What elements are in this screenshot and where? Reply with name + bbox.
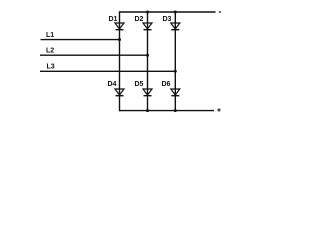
svg-text:D1: D1	[109, 16, 118, 23]
node L1 junction on column 1	[118, 38, 121, 41]
svg-text:D5: D5	[135, 81, 144, 88]
diode D1	[115, 23, 124, 30]
node bottom rail column 3	[174, 109, 177, 112]
diode D5	[143, 89, 152, 96]
svg-text:D4: D4	[108, 81, 117, 88]
wire L3 phase line	[40, 70, 175, 72]
svg-text:D6: D6	[162, 81, 171, 88]
node top rail column 2	[146, 11, 149, 14]
svg-text:L2: L2	[46, 48, 54, 55]
wire column 2 (D2/D5 leg)	[147, 12, 149, 111]
svg-text:D2: D2	[135, 16, 144, 23]
diode D4	[115, 89, 124, 96]
wire negative top rail	[120, 11, 216, 13]
node L2 junction on column 2	[146, 54, 149, 57]
diode D3	[171, 23, 180, 30]
wire column 3 (D3/D6 leg)	[174, 12, 176, 111]
wire L1 phase line	[41, 39, 120, 41]
node bottom rail column 2	[146, 109, 149, 112]
node top rail column 3	[174, 11, 177, 14]
diode D2	[143, 23, 152, 30]
svg-text:L3: L3	[47, 64, 55, 71]
node L3 junction on column 3	[174, 70, 177, 73]
svg-text:L1: L1	[46, 32, 54, 39]
svg-text:D3: D3	[163, 16, 172, 23]
wire L2 phase line	[40, 54, 148, 56]
diode D6	[171, 89, 180, 96]
wire positive bottom rail	[120, 110, 215, 112]
label minus terminal	[219, 11, 221, 12]
wire column 1 (D1/D4 leg)	[119, 11, 121, 111]
label plus terminal	[217, 108, 221, 112]
